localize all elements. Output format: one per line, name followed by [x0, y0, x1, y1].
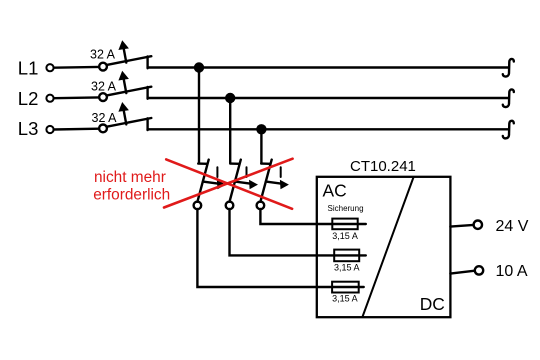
svg-text:erforderlich: erforderlich — [93, 187, 170, 204]
wire — [450, 271, 474, 274]
svg-text:10 A: 10 A — [496, 263, 528, 280]
wire — [450, 225, 473, 227]
wire — [260, 209, 365, 224]
wire — [54, 66, 99, 69]
terminal L2 — [46, 95, 53, 102]
svg-text:CT10.241: CT10.241 — [350, 158, 416, 175]
svg-text:3,15 A: 3,15 A — [332, 294, 358, 304]
circuit breaker 32A (L3) — [99, 102, 151, 132]
wire — [148, 97, 509, 99]
svg-text:L2: L2 — [18, 88, 39, 109]
wire — [54, 127, 99, 130]
circuit breaker 32A (L1) — [99, 40, 151, 70]
wire — [198, 68, 200, 164]
fuse F3 3,15A — [332, 282, 359, 293]
svg-text:32 A: 32 A — [91, 79, 117, 93]
node L2 junction — [225, 93, 235, 103]
switch S1 (crossed out, no longer required) — [194, 160, 226, 210]
wire — [148, 66, 509, 68]
fuse F1 3,15A — [332, 219, 357, 230]
node L3 junction — [256, 124, 266, 134]
svg-text:32 A: 32 A — [90, 48, 116, 62]
switch S3 (crossed out, no longer required) — [257, 160, 289, 210]
red cross stroke — [164, 159, 293, 208]
svg-text:24 V: 24 V — [496, 218, 529, 235]
svg-text:32 A: 32 A — [92, 111, 118, 125]
red cross stroke — [166, 159, 292, 208]
svg-text:3,15 A: 3,15 A — [334, 263, 360, 273]
node L1 junction — [194, 62, 204, 72]
continuation hook (L3) — [503, 121, 514, 139]
wire — [229, 98, 231, 163]
power supply U1 CT10.241 — [317, 177, 451, 317]
continuation hook (L1) — [503, 59, 514, 77]
svg-text:AC: AC — [323, 180, 347, 200]
continuation hook (L2) — [503, 89, 514, 107]
fuse F2 3,15A — [334, 250, 359, 262]
wire — [54, 96, 99, 99]
svg-text:L3: L3 — [18, 118, 39, 139]
wire — [230, 209, 366, 255]
svg-text:nicht mehr: nicht mehr — [94, 169, 166, 186]
svg-text:3,15 A: 3,15 A — [332, 231, 358, 241]
wire — [148, 128, 509, 130]
svg-text:DC: DC — [420, 294, 445, 314]
terminal 10A output — [475, 266, 483, 274]
svg-text:L1: L1 — [18, 58, 39, 79]
switch S2 (crossed out, no longer required) — [226, 160, 258, 210]
wire — [197, 209, 363, 287]
svg-text:Sicherung: Sicherung — [328, 204, 364, 213]
terminal L1 — [46, 64, 53, 71]
terminal L3 — [46, 126, 53, 133]
circuit breaker 32A (L2) — [99, 71, 151, 101]
AC/DC divider — [363, 178, 414, 317]
wire — [260, 129, 262, 163]
terminal 24V output — [474, 221, 482, 229]
